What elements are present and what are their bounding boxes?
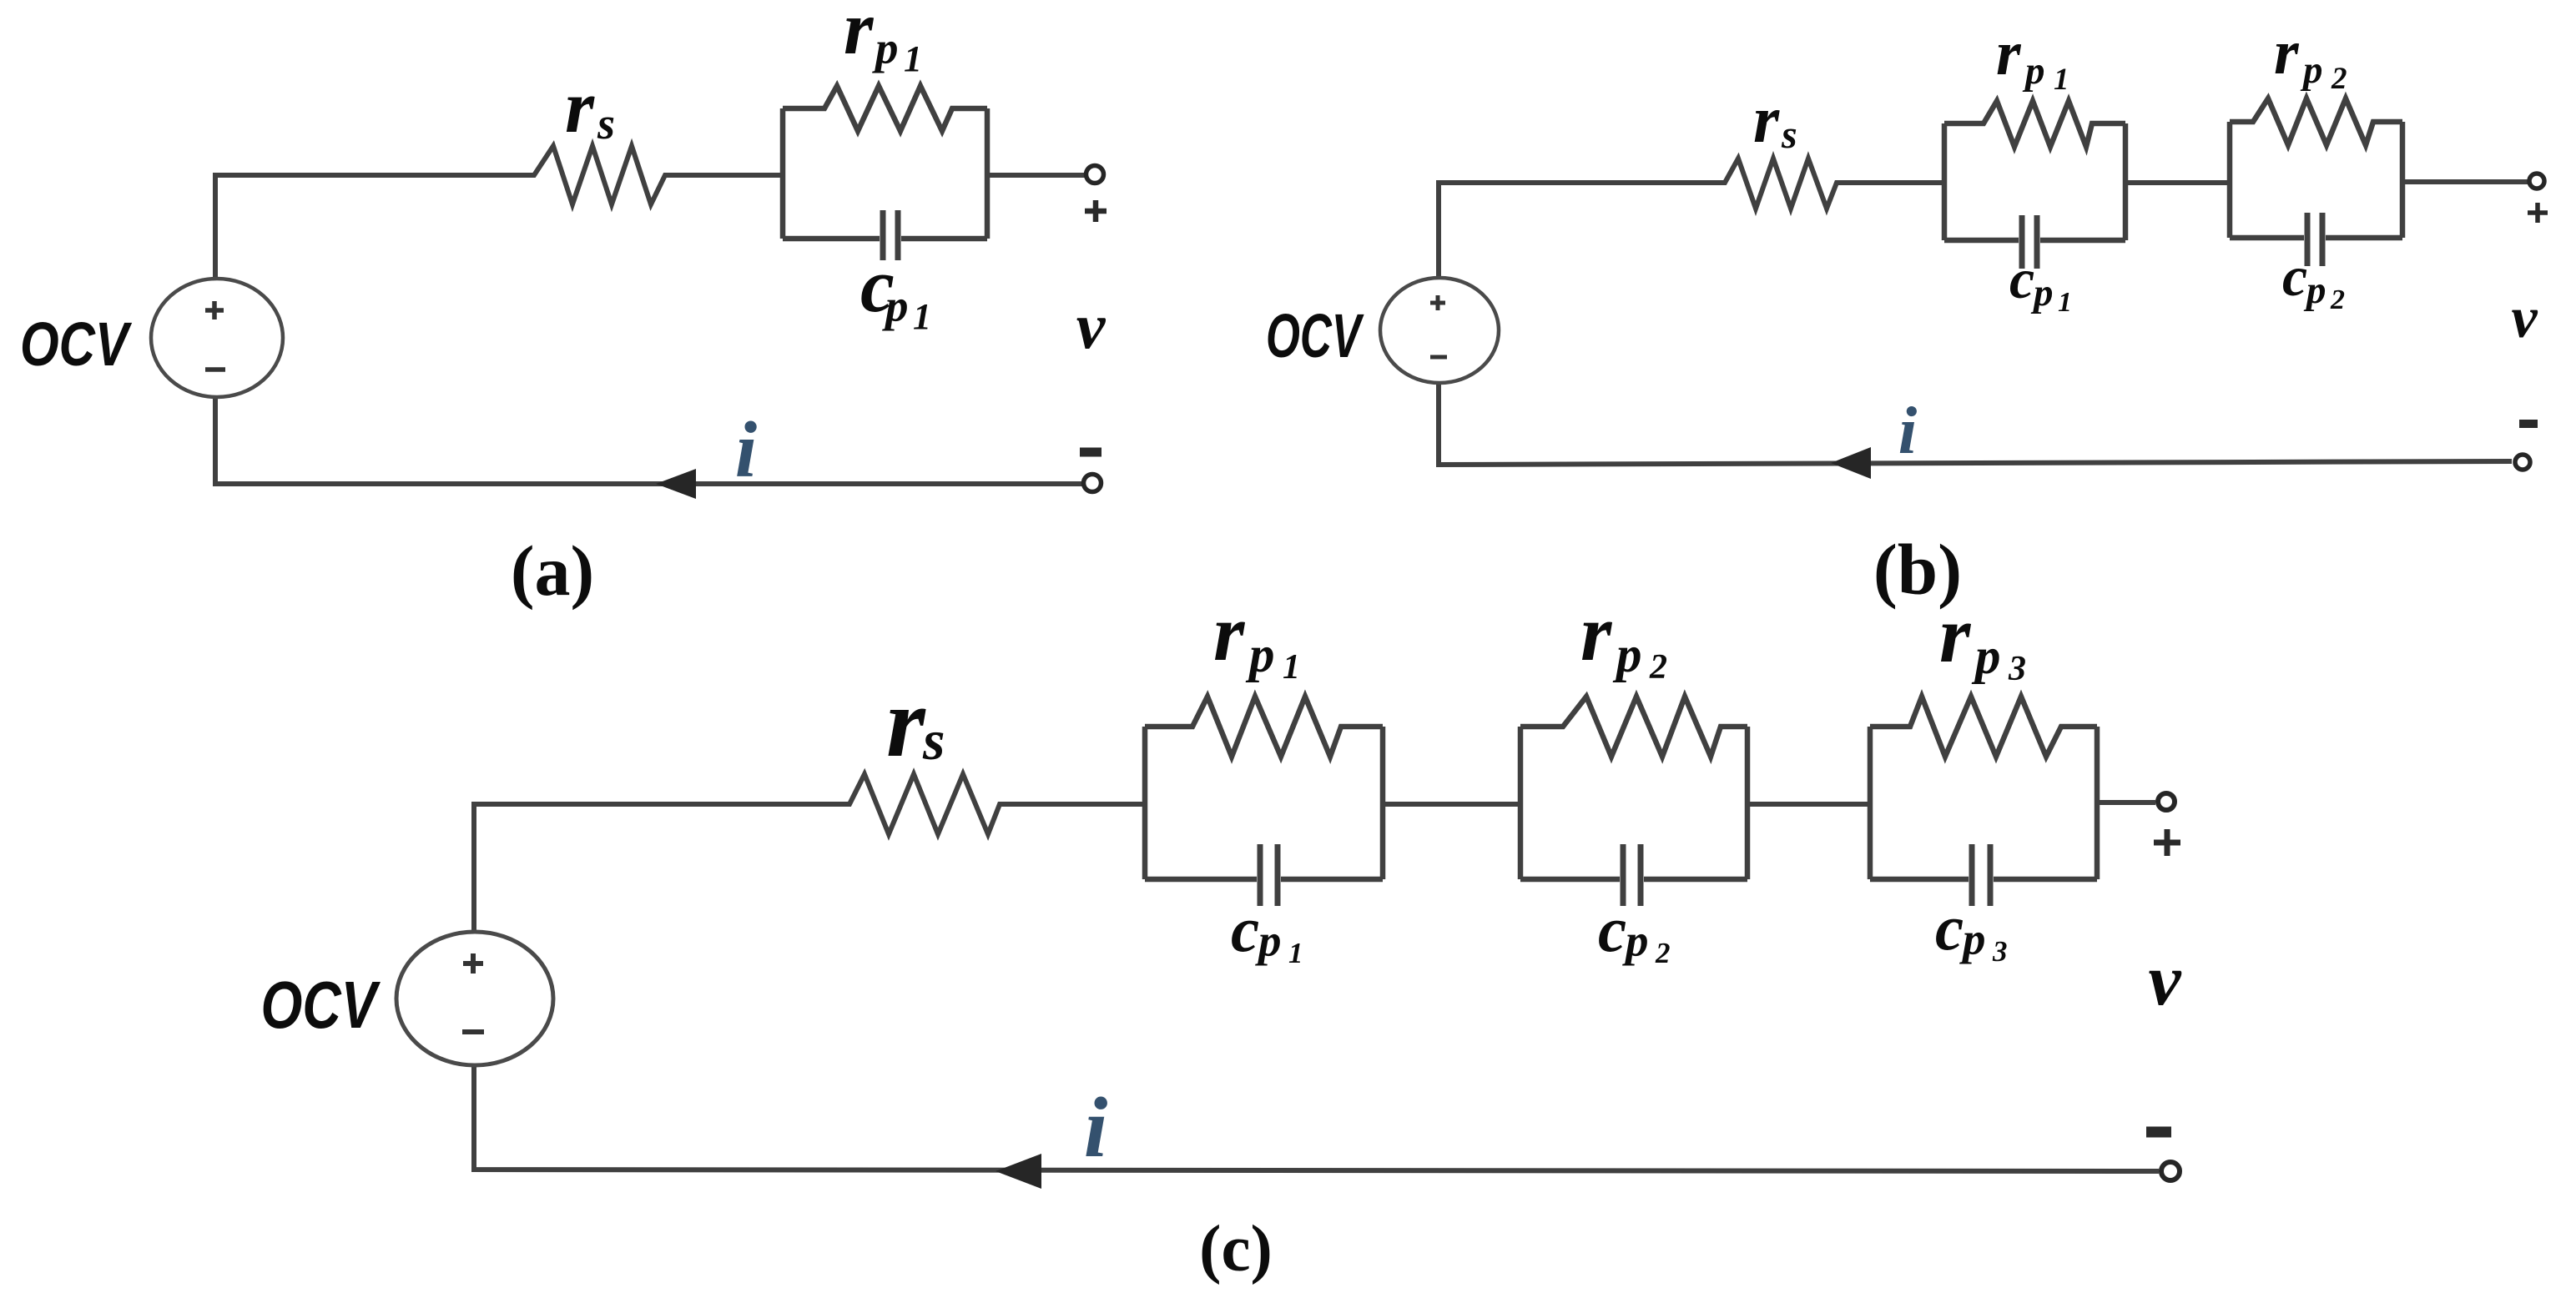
svg-text:v: v [1076,289,1107,362]
svg-text:v: v [2511,286,2538,350]
svg-text:1: 1 [904,38,922,79]
svg-text:i: i [1898,393,1918,468]
svg-text:1: 1 [913,296,931,337]
svg-text:(a): (a) [511,531,594,611]
svg-text:p: p [1245,627,1275,683]
svg-text:p: p [2303,269,2326,312]
svg-text:p: p [1971,629,2001,685]
svg-text:i: i [735,405,757,494]
svg-text:i: i [1084,1080,1108,1175]
svg-text:3: 3 [1992,935,2008,968]
svg-text:r: r [844,0,875,70]
svg-text:r: r [1939,590,1972,679]
svg-text:c: c [1935,892,1964,963]
svg-text:r: r [1580,588,1613,677]
svg-text:c: c [2282,244,2307,308]
svg-text:p: p [1255,915,1282,966]
svg-text:r: r [565,66,595,148]
svg-text:p: p [1959,913,1986,964]
svg-text:p: p [2300,48,2323,92]
svg-text:1: 1 [1283,648,1300,687]
svg-text:1: 1 [2058,287,2072,318]
svg-text:p: p [1622,915,1649,966]
svg-text:1: 1 [2054,63,2069,97]
svg-text:2: 2 [1655,937,1671,969]
svg-text:OCV: OCV [1266,301,1364,370]
svg-text:p: p [872,23,899,73]
svg-text:c: c [1231,893,1259,965]
svg-text:v: v [2148,940,2181,1021]
svg-text:p: p [1612,627,1642,683]
svg-text:2: 2 [2330,284,2345,315]
svg-text:3: 3 [2008,650,2026,688]
svg-text:OCV: OCV [261,968,381,1042]
svg-text:1: 1 [1288,937,1303,969]
svg-text:r: r [1996,18,2022,88]
svg-text:s: s [922,708,945,772]
svg-text:(c): (c) [1199,1213,1273,1285]
svg-text:2: 2 [1649,648,1667,687]
svg-text:r: r [886,667,926,777]
svg-text:OCV: OCV [20,309,133,379]
svg-text:p: p [2022,49,2045,93]
svg-text:c: c [1598,893,1626,965]
svg-text:p: p [2030,271,2054,314]
svg-text:r: r [1753,83,1780,157]
svg-text:p: p [882,280,909,331]
svg-text:s: s [1781,113,1797,157]
svg-text:c: c [2009,247,2034,310]
svg-text:r: r [1213,588,1246,677]
svg-text:2: 2 [2331,62,2347,96]
svg-text:r: r [2274,18,2300,88]
svg-text:s: s [597,98,615,148]
